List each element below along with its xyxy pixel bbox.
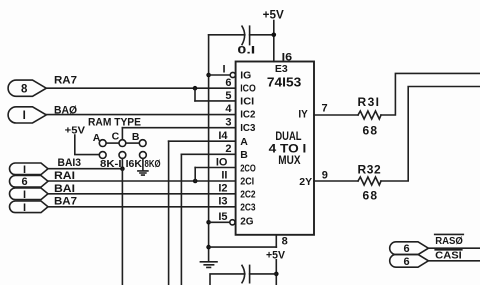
svg-text:E3: E3	[275, 63, 288, 75]
svg-text:8KØ: 8KØ	[145, 158, 161, 170]
svg-text:0.I: 0.I	[237, 44, 255, 56]
svg-text:74I53: 74I53	[267, 75, 301, 90]
wire RA1 to pin 11	[48, 180, 236, 182]
connector 1 BA13	[9, 163, 48, 175]
wire RAS0	[428, 247, 480, 249]
wire pads bar A-C	[106, 142, 119, 144]
svg-text:R32: R32	[358, 162, 382, 176]
svg-text:I6: I6	[282, 52, 293, 64]
wire pin 1	[209, 74, 231, 76]
svg-text:I5: I5	[218, 211, 227, 223]
svg-text:I: I	[23, 164, 26, 176]
connector 1 BA7	[9, 201, 48, 213]
wire BA7 to pin 13	[48, 206, 236, 208]
wire pin 5	[195, 100, 236, 102]
svg-text:2CO: 2CO	[240, 162, 256, 174]
wire pads bar C-B	[126, 142, 140, 144]
junction RA7 branch	[193, 86, 198, 91]
pad A2	[99, 152, 106, 159]
wire pad C2 to BA13	[121, 158, 123, 168]
wire B-select vertical	[180, 154, 182, 285]
connector 1 BA1	[9, 188, 48, 200]
junction +5V cap	[272, 33, 277, 38]
svg-text:8: 8	[21, 84, 28, 96]
junction ground pin8	[206, 245, 211, 250]
svg-text:5: 5	[225, 90, 231, 102]
svg-text:2Y: 2Y	[299, 176, 312, 188]
svg-text:B: B	[240, 149, 248, 161]
IC E3 74153 box	[236, 62, 314, 235]
capacitor C top straight plate	[249, 26, 251, 44]
wire pad C up to pin 3	[121, 128, 123, 140]
junction RA1 branch	[193, 179, 198, 184]
svg-text:MUX: MUX	[278, 153, 300, 167]
junction BA13 C2	[120, 166, 125, 171]
capacitor bottom curved plate	[242, 265, 245, 282]
connector 6 CAS1	[390, 254, 429, 267]
svg-text:C: C	[112, 131, 120, 143]
svg-text:RA7: RA7	[54, 74, 77, 86]
svg-text:IG: IG	[240, 70, 251, 82]
svg-text:II: II	[221, 170, 227, 182]
svg-text:R3I: R3I	[358, 95, 381, 109]
capacitor C top curved plate	[242, 26, 245, 44]
svg-text:ICO: ICO	[240, 82, 256, 94]
svg-text:2C2: 2C2	[240, 189, 256, 201]
resistor R31	[358, 111, 381, 119]
svg-text:6: 6	[403, 256, 409, 268]
junction +5V bottom cap	[274, 272, 279, 277]
capacitor C top right wire	[250, 34, 274, 36]
svg-text:IC3: IC3	[240, 122, 255, 134]
svg-text:RAM TYPE: RAM TYPE	[88, 117, 141, 129]
wire +5V to pin 16	[273, 21, 275, 62]
svg-text:I: I	[223, 64, 226, 76]
svg-text:I3: I3	[218, 196, 227, 208]
wire pin 7 to R31	[314, 114, 358, 116]
capacitor bottom straight plate	[249, 265, 251, 282]
svg-text:B: B	[132, 131, 140, 143]
svg-text:BAI3: BAI3	[58, 157, 82, 169]
connector 8 RA7	[8, 80, 46, 96]
svg-text:ICI: ICI	[240, 95, 254, 107]
svg-text:IO: IO	[216, 156, 228, 168]
wire RA7 to pin 6	[46, 87, 235, 89]
wire R32 out	[381, 87, 480, 182]
capacitor bottom right wire	[250, 273, 277, 275]
pad C	[119, 140, 126, 147]
svg-text:9: 9	[322, 169, 328, 181]
wire CAS1	[428, 260, 480, 262]
wire pin 3	[122, 127, 235, 129]
svg-text:2CI: 2CI	[240, 176, 254, 188]
svg-text:6: 6	[225, 77, 231, 89]
svg-text:IC2: IC2	[240, 108, 255, 120]
junction pin15 ground	[206, 220, 211, 225]
svg-text:3: 3	[225, 116, 231, 128]
label RAS0 overline	[435, 233, 464, 235]
bubble pin 1	[230, 72, 235, 77]
pad B	[139, 140, 146, 147]
pad C2	[119, 152, 126, 159]
pad B2	[140, 152, 147, 159]
svg-text:I6K: I6K	[126, 158, 143, 170]
ground bus vertical	[208, 35, 210, 262]
svg-text:I: I	[23, 110, 26, 122]
connector 6 RAS0	[390, 242, 429, 255]
wire pin 10	[195, 167, 235, 169]
wire R31 out	[381, 73, 480, 115]
wire BA13	[48, 168, 122, 170]
ground jumper B2	[138, 171, 148, 175]
resistor R32	[358, 177, 381, 185]
svg-text:IY: IY	[298, 109, 308, 121]
capacitor bottom left wire	[210, 274, 245, 285]
pad A	[99, 140, 106, 147]
svg-text:6: 6	[21, 176, 27, 188]
wire pad B2 to ground	[142, 158, 144, 170]
svg-text:I2: I2	[218, 183, 227, 195]
svg-text:2C3: 2C3	[240, 202, 256, 214]
wire BA13 down	[121, 169, 123, 285]
capacitor C top 0.1 left wire	[209, 34, 245, 36]
svg-text:I: I	[23, 202, 26, 214]
svg-text:A: A	[240, 136, 248, 148]
wire ground to pin 8	[209, 246, 277, 248]
svg-text:68: 68	[363, 189, 379, 203]
svg-text:BA7: BA7	[54, 195, 77, 207]
svg-text:68: 68	[363, 123, 379, 137]
wire RA1 branch up	[194, 168, 196, 182]
bubble pin 15	[230, 220, 235, 225]
svg-text:4: 4	[225, 103, 232, 115]
svg-text:6: 6	[403, 243, 409, 255]
svg-text:2: 2	[225, 143, 231, 155]
connector 1 BA0	[8, 107, 46, 123]
svg-text:RASØ: RASØ	[435, 236, 463, 247]
wire pin 14	[169, 140, 236, 142]
svg-text:I: I	[23, 189, 26, 201]
wire BA1 to pin 12	[48, 193, 236, 195]
junction pin1 ground	[206, 73, 211, 78]
wire BA0 to pin 4	[46, 114, 235, 116]
svg-text:8: 8	[282, 236, 288, 248]
label CAS1 overline	[435, 249, 462, 251]
wire +5V to pad A2	[75, 135, 100, 155]
wire pin 2	[181, 153, 235, 155]
wire pin 8 stub	[275, 235, 277, 247]
wire RA7 branch down	[194, 88, 196, 101]
connector 6 RA1	[9, 176, 48, 188]
svg-text:I4: I4	[218, 130, 228, 142]
wire A-select vertical	[168, 141, 170, 285]
svg-text:2G: 2G	[240, 216, 254, 227]
svg-text:CASI: CASI	[435, 251, 462, 262]
ground symbol main	[200, 262, 217, 268]
wire +5V bottom stub	[275, 260, 277, 285]
wire pin 15	[209, 221, 230, 223]
svg-text:7: 7	[322, 102, 328, 114]
wire pin 9 to R32	[314, 180, 358, 182]
